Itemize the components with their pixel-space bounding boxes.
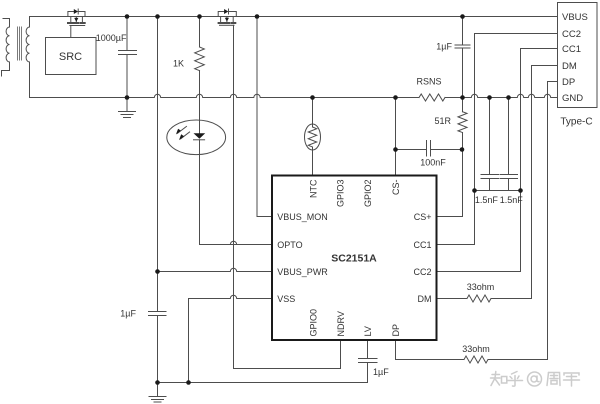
capacitor C7 1uF [359, 359, 378, 383]
svg-text:Type-C: Type-C [560, 117, 592, 128]
svg-text:GPIO3: GPIO3 [335, 180, 345, 208]
svg-text:SC2151A: SC2151A [331, 253, 377, 265]
svg-text:VBUS_PWR: VBUS_PWR [277, 267, 328, 277]
svg-text:CC2: CC2 [562, 29, 581, 40]
resistor R5 33ohm DP [464, 356, 488, 363]
svg-text:1000µF: 1000µF [96, 33, 127, 43]
svg-text:DM: DM [562, 61, 577, 72]
svg-text:GPIO2: GPIO2 [363, 180, 373, 208]
capacitor C3 1uF top right [455, 17, 470, 98]
thermistor NTC column [312, 98, 314, 128]
svg-text:1µF: 1µF [120, 309, 136, 319]
wire DP pin [396, 340, 465, 360]
svg-text:CS-: CS- [391, 179, 401, 195]
svg-text:1µF: 1µF [373, 367, 389, 377]
svg-text:1µF: 1µF [436, 42, 452, 52]
svg-text:1K: 1K [173, 59, 184, 69]
svg-text:DP: DP [562, 77, 575, 88]
wire VSS pin with hop [189, 295, 273, 298]
wire bottom ground rail [158, 382, 368, 384]
SRC controller box [46, 38, 97, 75]
svg-text:CS+: CS+ [414, 212, 432, 222]
wire DM to Type-C [532, 66, 558, 299]
ground symbol bottom-left [149, 383, 166, 403]
svg-text:GPIO0: GPIO0 [308, 309, 318, 337]
capacitor C5 1.5nF [500, 98, 518, 191]
svg-text:LV: LV [363, 326, 373, 336]
capacitor C2 100nF [396, 141, 463, 157]
svg-text:OPTO: OPTO [277, 240, 302, 250]
transformer T1 primary winding [2, 19, 10, 77]
wire opto LED to OPTO pin [200, 140, 273, 245]
wire CS- column [395, 98, 397, 176]
watermark char 乎 [508, 372, 523, 387]
ground symbol at C1 [119, 98, 136, 118]
resistor R4 33ohm DM [437, 295, 532, 302]
svg-text:33ohm: 33ohm [467, 282, 495, 292]
resistor R2 RSNS in rail [419, 94, 445, 101]
wire VBUS_PWR pin with hop [158, 268, 273, 271]
IC U1 SC2151A box [272, 176, 437, 341]
wire GND rail with crossover hops [30, 94, 420, 97]
svg-text:51R: 51R [434, 116, 451, 126]
Type-C connector J1 box [558, 3, 598, 108]
svg-text:VSS: VSS [277, 294, 295, 304]
watermark 知乎 @周军 (vector glyphs) [491, 372, 580, 387]
svg-text:SRC: SRC [59, 51, 82, 63]
wire VBUS_PWR column [157, 17, 159, 312]
transformer T1 core [18, 27, 22, 60]
wire CS+ pin [437, 150, 463, 217]
svg-text:DM: DM [418, 294, 432, 304]
wire LV pin [367, 340, 369, 359]
watermark char @ [528, 372, 542, 386]
svg-text:100nF: 100nF [420, 157, 446, 167]
wire Q1 gate to SRC [70, 26, 72, 38]
transistor Q1 sync-rect MOSFET [68, 9, 85, 26]
wire cap bottoms link [475, 190, 521, 192]
wire CC1 pin to Type-C CC2 [437, 34, 558, 245]
svg-text:1.5nF: 1.5nF [500, 195, 524, 205]
wire Q2 gate to NDRV [234, 25, 341, 368]
wire VBUS_MON from top rail [257, 17, 272, 217]
svg-text:VBUS_MON: VBUS_MON [277, 212, 328, 222]
capacitor C1 1000uF [119, 17, 137, 98]
svg-text:GND: GND [562, 93, 583, 104]
wire DP to Type-C [488, 82, 558, 360]
capacitor C6 1uF [149, 312, 167, 383]
svg-text:33ohm: 33ohm [462, 344, 490, 354]
transformer T1 secondary winding [26, 17, 29, 98]
resistor R1 1K [195, 17, 205, 71]
watermark char 周 [547, 373, 560, 386]
svg-text:1.5nF: 1.5nF [475, 195, 499, 205]
transistor Q2 VBUS switch MOSFET [218, 9, 236, 25]
svg-text:RSNS: RSNS [416, 77, 441, 87]
wire 1K to opto LED [199, 71, 201, 134]
svg-text:NTC: NTC [308, 179, 318, 198]
capacitor C4 1.5nF [481, 98, 499, 191]
wire CC2 pin to Type-C CC1 [437, 49, 558, 272]
svg-text:NDRV: NDRV [336, 311, 346, 336]
svg-text:CC1: CC1 [562, 44, 581, 55]
wire top VBUS rail [30, 16, 558, 18]
watermark char 军 [564, 373, 580, 386]
svg-text:DP: DP [391, 324, 401, 337]
svg-text:VBUS: VBUS [562, 12, 588, 23]
svg-text:CC2: CC2 [413, 267, 431, 277]
resistor R3 51R [458, 98, 467, 150]
svg-text:CC1: CC1 [413, 240, 431, 250]
wire OPTO pin hop [200, 241, 273, 244]
optocoupler U2 LED side [167, 120, 226, 155]
watermark char 知 [491, 372, 507, 386]
